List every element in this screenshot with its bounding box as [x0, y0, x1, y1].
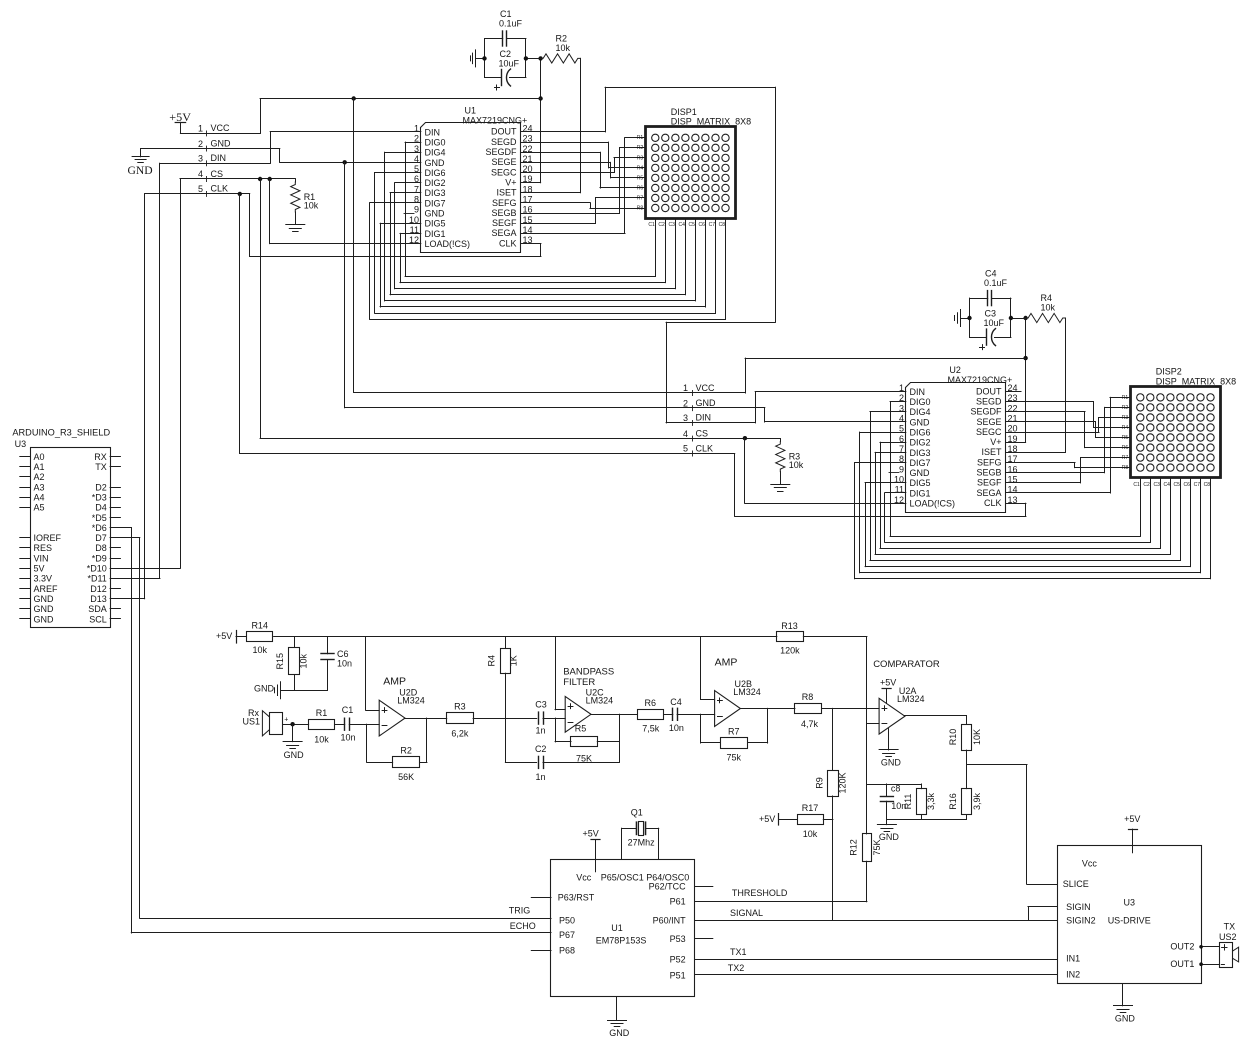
svg-text:*D9: *D9	[92, 553, 107, 563]
svg-text:V+: V+	[505, 178, 516, 188]
svg-text:R3: R3	[1122, 415, 1129, 421]
svg-text:DIG3: DIG3	[425, 188, 446, 198]
svg-text:+5V: +5V	[759, 814, 775, 824]
svg-text:U2: U2	[949, 365, 961, 375]
svg-text:DIG4: DIG4	[910, 407, 931, 417]
svg-text:CLK: CLK	[696, 443, 714, 453]
svg-text:27Mhz: 27Mhz	[628, 838, 656, 848]
svg-text:GND: GND	[910, 417, 931, 427]
svg-text:C1: C1	[500, 9, 512, 19]
svg-text:P60/INT: P60/INT	[653, 916, 687, 926]
svg-text:DOUT: DOUT	[491, 127, 517, 137]
svg-text:10k: 10k	[556, 43, 571, 53]
svg-text:V+: V+	[990, 437, 1001, 447]
svg-text:R7: R7	[637, 195, 644, 201]
svg-text:6,2k: 6,2k	[451, 729, 469, 739]
svg-text:DIG1: DIG1	[910, 488, 931, 498]
svg-text:DIG5: DIG5	[910, 478, 931, 488]
svg-text:P50: P50	[559, 916, 575, 926]
svg-text:C1: C1	[342, 705, 354, 715]
svg-text:RES: RES	[34, 543, 53, 553]
svg-text:1K: 1K	[509, 655, 519, 666]
svg-text:DISP2: DISP2	[1156, 367, 1182, 377]
svg-text:P52: P52	[670, 954, 686, 964]
svg-text:14: 14	[1008, 485, 1018, 495]
svg-text:D7: D7	[95, 533, 107, 543]
svg-text:Q1: Q1	[631, 808, 643, 818]
svg-text:10n: 10n	[340, 732, 355, 742]
svg-text:C8: C8	[719, 222, 726, 228]
svg-text:BANDPASS: BANDPASS	[563, 667, 614, 678]
svg-text:DIG1: DIG1	[425, 229, 446, 239]
svg-text:CLK: CLK	[211, 184, 229, 194]
svg-text:LM324: LM324	[897, 694, 925, 704]
svg-text:GND: GND	[609, 1028, 630, 1038]
svg-text:10k: 10k	[252, 645, 267, 655]
svg-text:GND: GND	[879, 832, 900, 842]
svg-text:R2: R2	[400, 746, 412, 756]
svg-text:R14: R14	[251, 621, 268, 631]
svg-text:A1: A1	[34, 462, 45, 472]
svg-text:1n: 1n	[535, 772, 545, 782]
svg-text:+: +	[284, 717, 288, 724]
svg-text:*D3: *D3	[92, 493, 107, 503]
svg-text:GND: GND	[128, 163, 153, 177]
svg-text:GND: GND	[34, 614, 55, 624]
svg-text:R8: R8	[637, 205, 644, 211]
svg-text:R2: R2	[637, 145, 644, 151]
svg-text:C4: C4	[670, 697, 682, 707]
svg-text:3: 3	[683, 413, 688, 423]
svg-text:21: 21	[1008, 414, 1018, 424]
svg-text:DIG4: DIG4	[425, 148, 446, 158]
svg-text:10n: 10n	[669, 723, 684, 733]
svg-text:COMPARATOR: COMPARATOR	[873, 659, 940, 670]
svg-text:Vcc: Vcc	[576, 873, 592, 883]
svg-text:TX: TX	[95, 462, 107, 472]
svg-text:GND: GND	[284, 750, 305, 760]
svg-text:10K: 10K	[972, 729, 982, 745]
svg-text:DIN: DIN	[425, 127, 441, 137]
svg-text:R6: R6	[1122, 445, 1129, 451]
svg-text:10k: 10k	[304, 200, 319, 210]
svg-text:AMP: AMP	[715, 657, 738, 669]
svg-text:C7: C7	[1194, 482, 1201, 488]
svg-text:GND: GND	[1115, 1014, 1136, 1024]
svg-text:C6: C6	[698, 222, 705, 228]
svg-text:SEGA: SEGA	[976, 488, 1001, 498]
svg-text:R5: R5	[637, 175, 644, 181]
svg-text:C6: C6	[1183, 482, 1190, 488]
svg-text:FILTER: FILTER	[563, 677, 595, 688]
svg-text:LOAD(!CS): LOAD(!CS)	[910, 499, 956, 509]
svg-text:R7: R7	[728, 727, 740, 737]
svg-text:4,7k: 4,7k	[801, 719, 819, 729]
svg-text:4: 4	[683, 429, 688, 439]
svg-text:2: 2	[683, 398, 688, 408]
svg-text:C6: C6	[337, 649, 349, 659]
svg-text:10n: 10n	[337, 659, 352, 669]
svg-text:C3: C3	[668, 222, 675, 228]
svg-text:SEGD: SEGD	[491, 137, 517, 147]
svg-text:DIN: DIN	[211, 153, 227, 163]
svg-text:R1: R1	[316, 708, 328, 718]
svg-text:P67: P67	[559, 930, 575, 940]
svg-text:GND: GND	[211, 138, 232, 148]
svg-text:AMP: AMP	[383, 675, 406, 687]
svg-text:+5V: +5V	[169, 110, 191, 124]
svg-text:US-DRIVE: US-DRIVE	[1108, 916, 1151, 926]
svg-text:C3: C3	[1153, 482, 1160, 488]
svg-text:ARDUINO_R3_SHIELD: ARDUINO_R3_SHIELD	[12, 427, 110, 437]
svg-text:R1: R1	[1122, 395, 1129, 401]
svg-text:TX1: TX1	[730, 947, 747, 957]
svg-text:GND: GND	[881, 758, 902, 768]
svg-text:R2: R2	[556, 34, 568, 44]
svg-text:C4: C4	[1163, 482, 1170, 488]
svg-text:D12: D12	[90, 584, 107, 594]
svg-text:SLICE: SLICE	[1063, 879, 1089, 889]
svg-text:DIG3: DIG3	[910, 448, 931, 458]
svg-text:11: 11	[895, 485, 904, 495]
svg-text:A4: A4	[34, 493, 45, 503]
svg-text:R4: R4	[1122, 425, 1129, 431]
svg-text:R9: R9	[815, 777, 825, 789]
svg-text:R15: R15	[275, 653, 285, 670]
svg-text:VIN: VIN	[34, 553, 49, 563]
svg-text:10k: 10k	[803, 829, 818, 839]
svg-text:SEGC: SEGC	[491, 167, 517, 177]
svg-text:SEGD: SEGD	[976, 397, 1002, 407]
svg-text:C3: C3	[535, 699, 547, 709]
svg-text:GND: GND	[34, 594, 55, 604]
svg-text:SEGC: SEGC	[976, 427, 1002, 437]
svg-text:5: 5	[683, 444, 688, 454]
svg-text:R8: R8	[802, 692, 814, 702]
svg-text:ISET: ISET	[496, 188, 517, 198]
svg-text:C2: C2	[500, 49, 512, 59]
svg-text:C3: C3	[985, 309, 997, 319]
svg-text:*D10: *D10	[87, 564, 107, 574]
svg-text:5: 5	[198, 184, 203, 194]
svg-text:CS: CS	[696, 428, 709, 438]
svg-text:P62/TCC: P62/TCC	[649, 882, 687, 892]
svg-text:C7: C7	[709, 222, 716, 228]
svg-text:DIG0: DIG0	[910, 397, 931, 407]
svg-text:C2: C2	[1143, 482, 1150, 488]
svg-text:CLK: CLK	[499, 238, 517, 248]
svg-text:75K: 75K	[576, 754, 592, 764]
svg-text:120K: 120K	[838, 772, 848, 793]
svg-text:OUT2: OUT2	[1170, 941, 1194, 951]
svg-text:10k: 10k	[314, 735, 329, 745]
svg-text:GND: GND	[425, 209, 446, 219]
svg-text:10k: 10k	[789, 460, 804, 470]
svg-text:GND: GND	[34, 604, 55, 614]
svg-text:VCC: VCC	[696, 383, 716, 393]
svg-text:SEGF: SEGF	[492, 218, 517, 228]
svg-text:1n: 1n	[535, 726, 545, 736]
svg-text:AREF: AREF	[34, 584, 59, 594]
svg-text:+5V: +5V	[880, 677, 896, 687]
svg-text:C2: C2	[658, 222, 665, 228]
svg-text:U3: U3	[1124, 898, 1136, 908]
svg-text:10uF: 10uF	[499, 59, 520, 69]
svg-text:D13: D13	[90, 594, 107, 604]
svg-text:DOUT: DOUT	[976, 386, 1002, 396]
svg-text:C5: C5	[688, 222, 695, 228]
svg-text:R4: R4	[1041, 293, 1053, 303]
svg-text:GND: GND	[254, 684, 275, 694]
svg-text:SEGA: SEGA	[491, 228, 516, 238]
svg-text:C5: C5	[1173, 482, 1180, 488]
svg-text:C4: C4	[678, 222, 685, 228]
svg-text:R5: R5	[1122, 435, 1129, 441]
svg-text:A0: A0	[34, 452, 45, 462]
svg-text:+5V: +5V	[1124, 814, 1140, 824]
svg-text:DISP1: DISP1	[671, 107, 697, 117]
svg-text:CLK: CLK	[984, 498, 1002, 508]
svg-text:TX: TX	[1224, 922, 1236, 932]
svg-text:9: 9	[414, 205, 419, 215]
svg-text:R4: R4	[487, 655, 497, 667]
svg-text:c8: c8	[891, 784, 901, 794]
svg-text:P63/RST: P63/RST	[558, 893, 595, 903]
svg-text:ISET: ISET	[981, 447, 1002, 457]
svg-text:US2: US2	[1219, 932, 1237, 942]
svg-text:+5V: +5V	[216, 631, 232, 641]
svg-text:DIG6: DIG6	[910, 428, 931, 438]
svg-text:SEGB: SEGB	[976, 468, 1001, 478]
svg-text:5V: 5V	[34, 564, 45, 574]
svg-text:TX2: TX2	[728, 963, 745, 973]
svg-text:SEGE: SEGE	[491, 157, 516, 167]
svg-text:MAX7219CNG+: MAX7219CNG+	[948, 375, 1013, 385]
svg-text:GND: GND	[910, 468, 931, 478]
svg-text:P61: P61	[670, 897, 686, 907]
svg-text:3: 3	[198, 154, 203, 164]
svg-text:CS: CS	[211, 169, 224, 179]
svg-text:R5: R5	[575, 724, 587, 734]
svg-text:IN2: IN2	[1066, 970, 1080, 980]
svg-text:7,5k: 7,5k	[642, 723, 660, 733]
svg-text:VCC: VCC	[211, 123, 231, 133]
svg-text:10uF: 10uF	[984, 318, 1005, 328]
svg-text:9: 9	[899, 464, 904, 474]
svg-text:R6: R6	[637, 185, 644, 191]
svg-text:GND: GND	[696, 398, 717, 408]
svg-text:D8: D8	[95, 543, 107, 553]
svg-text:D4: D4	[95, 503, 107, 513]
svg-text:RX: RX	[94, 452, 107, 462]
svg-text:SEFG: SEFG	[492, 198, 517, 208]
svg-text:THRESHOLD: THRESHOLD	[732, 888, 788, 898]
svg-text:120k: 120k	[780, 646, 800, 656]
svg-text:DIG7: DIG7	[425, 198, 446, 208]
svg-text:OUT1: OUT1	[1170, 959, 1194, 969]
svg-text:DIN: DIN	[696, 413, 712, 423]
svg-text:SEGF: SEGF	[977, 478, 1002, 488]
svg-text:56K: 56K	[398, 772, 414, 782]
svg-text:1: 1	[198, 124, 203, 134]
svg-text:C8: C8	[1204, 482, 1211, 488]
svg-text:75k: 75k	[727, 752, 742, 762]
svg-text:TRIG: TRIG	[509, 906, 531, 916]
svg-text:SEGE: SEGE	[976, 417, 1001, 427]
svg-text:LOAD(!CS): LOAD(!CS)	[425, 239, 471, 249]
svg-text:R7: R7	[1122, 455, 1129, 461]
svg-text:R2: R2	[1122, 405, 1129, 411]
svg-text:P68: P68	[559, 945, 575, 955]
svg-text:SEGB: SEGB	[491, 208, 516, 218]
svg-text:SIGNAL: SIGNAL	[730, 908, 763, 918]
svg-text:US1: US1	[242, 717, 260, 727]
svg-text:LM324: LM324	[733, 687, 761, 697]
svg-text:P65/OSC1: P65/OSC1	[601, 873, 644, 883]
svg-text:MAX7219CNG+: MAX7219CNG+	[463, 115, 528, 125]
svg-text:SIGIN2: SIGIN2	[1066, 916, 1096, 926]
svg-text:R8: R8	[1122, 465, 1129, 471]
svg-text:DIG7: DIG7	[910, 458, 931, 468]
svg-text:4: 4	[899, 414, 904, 424]
svg-text:*D5: *D5	[92, 513, 107, 523]
svg-text:1: 1	[683, 383, 688, 393]
svg-text:*D6: *D6	[92, 523, 107, 533]
svg-text:A2: A2	[34, 472, 45, 482]
svg-text:C1: C1	[648, 222, 655, 228]
svg-text:DIN: DIN	[910, 387, 926, 397]
svg-text:D2: D2	[95, 482, 107, 492]
svg-text:P53: P53	[670, 934, 686, 944]
svg-text:SEGDF: SEGDF	[485, 147, 517, 157]
svg-text:R12: R12	[849, 839, 859, 856]
svg-text:0.1uF: 0.1uF	[984, 278, 1008, 288]
svg-text:A5: A5	[34, 503, 45, 513]
svg-text:U3: U3	[15, 439, 27, 449]
svg-text:P51: P51	[670, 970, 686, 980]
svg-text:DIG5: DIG5	[425, 219, 446, 229]
svg-text:10k: 10k	[1041, 303, 1056, 313]
svg-text:DISP_MATRIX_8X8: DISP_MATRIX_8X8	[671, 117, 751, 127]
svg-text:SIGIN: SIGIN	[1066, 902, 1091, 912]
svg-text:R16: R16	[948, 793, 958, 810]
svg-text:ECHO: ECHO	[510, 921, 536, 931]
svg-text:0.1uF: 0.1uF	[499, 19, 523, 29]
svg-text:R3: R3	[454, 702, 466, 712]
svg-text:A3: A3	[34, 482, 45, 492]
svg-text:LM324: LM324	[397, 696, 425, 706]
svg-text:C4: C4	[985, 269, 997, 279]
svg-text:IOREF: IOREF	[34, 533, 62, 543]
svg-text:IN1: IN1	[1066, 954, 1080, 964]
svg-text:SEGDF: SEGDF	[970, 407, 1002, 417]
svg-text:LM324: LM324	[586, 696, 614, 706]
svg-text:C2: C2	[535, 744, 547, 754]
svg-text:2: 2	[198, 139, 203, 149]
svg-text:U1: U1	[465, 106, 477, 116]
svg-text:DIG2: DIG2	[910, 438, 931, 448]
svg-text:DIG0: DIG0	[425, 138, 446, 148]
svg-text:DIG2: DIG2	[425, 178, 446, 188]
svg-text:SEFG: SEFG	[977, 457, 1002, 467]
svg-text:R10: R10	[948, 729, 958, 746]
svg-text:R1: R1	[637, 135, 644, 141]
svg-text:4: 4	[198, 169, 203, 179]
svg-text:+5V: +5V	[582, 828, 598, 838]
svg-text:R6: R6	[645, 698, 657, 708]
svg-text:R3: R3	[637, 155, 644, 161]
svg-text:3,3k: 3,3k	[926, 792, 936, 810]
svg-text:DISP_MATRIX_8X8: DISP_MATRIX_8X8	[1156, 376, 1236, 386]
svg-text:3,9k: 3,9k	[972, 792, 982, 810]
svg-text:Vcc: Vcc	[1082, 859, 1098, 869]
svg-text:R4: R4	[637, 165, 644, 171]
svg-text:GND: GND	[425, 158, 446, 168]
svg-text:3.3V: 3.3V	[34, 574, 53, 584]
svg-text:*D11: *D11	[87, 574, 106, 584]
svg-text:U1: U1	[611, 923, 623, 933]
svg-text:SDA: SDA	[88, 604, 107, 614]
svg-text:C1: C1	[1133, 482, 1140, 488]
svg-text:R17: R17	[802, 803, 819, 813]
svg-text:DIG6: DIG6	[425, 168, 446, 178]
svg-text:R13: R13	[781, 621, 798, 631]
svg-text:SCL: SCL	[89, 614, 107, 624]
svg-text:R11: R11	[903, 794, 913, 810]
svg-text:10k: 10k	[299, 653, 309, 668]
svg-text:EM78P153S: EM78P153S	[596, 936, 647, 946]
